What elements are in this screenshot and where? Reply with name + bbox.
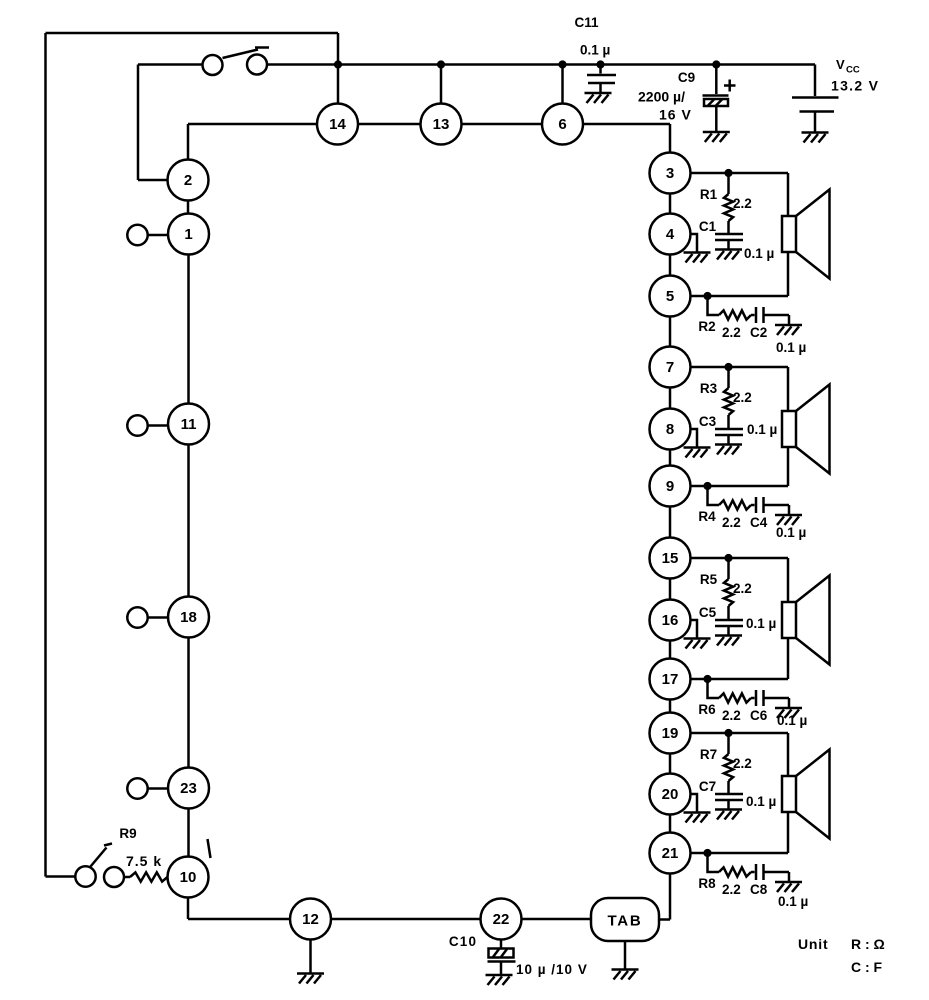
- capacitor C2: [756, 307, 789, 324]
- wire right column: [669, 194, 672, 214]
- switch S1 (power switch): [203, 48, 270, 76]
- wire pin10-pin12: [188, 918, 290, 921]
- wire pin13 feed: [440, 65, 443, 104]
- pin 9: [650, 466, 691, 507]
- wire right column: [669, 754, 672, 774]
- wire pin11-pin18: [187, 445, 190, 597]
- svg-text:19: 19: [662, 725, 679, 742]
- svg-text:R7: R7: [700, 747, 717, 762]
- wire pin2 left: [138, 179, 168, 182]
- svg-text:15: 15: [662, 550, 679, 567]
- wire ch2 mid pin ground stub: [691, 429, 698, 447]
- wire ch1 speaker bottom feed: [787, 252, 790, 296]
- wire terminal-pin11: [148, 424, 168, 427]
- resistor R8: [719, 867, 751, 876]
- svg-text:C10: C10: [449, 934, 477, 949]
- wire R4 to C4: [751, 504, 755, 507]
- resistor R9: [130, 872, 168, 881]
- resistor R5: [724, 579, 733, 606]
- pin 3: [650, 153, 691, 194]
- ground ch4 mid pin: [684, 813, 711, 823]
- pin 8: [650, 409, 691, 450]
- battery Vcc: [792, 98, 839, 132]
- wire right column: [669, 317, 672, 347]
- svg-text:R5: R5: [700, 572, 718, 587]
- pin 10: [168, 857, 209, 898]
- svg-text:R9: R9: [119, 826, 136, 841]
- wire R6 to C6: [751, 697, 755, 700]
- wire ch3 into R5: [727, 558, 730, 579]
- resistor R3: [724, 388, 733, 415]
- wire ch2 out- to speaker: [691, 485, 789, 488]
- svg-text:2.2: 2.2: [722, 708, 741, 723]
- svg-text:R2: R2: [698, 319, 715, 334]
- wire ch3 speaker top feed: [787, 558, 790, 602]
- pin 5: [650, 276, 691, 317]
- svg-text:1: 1: [184, 226, 192, 243]
- pin 21: [650, 833, 691, 874]
- wire pin23-pin10: [187, 809, 190, 857]
- wire ch2 R4 drop: [708, 486, 720, 505]
- wire ch1 speaker top feed: [787, 173, 790, 216]
- junction ch4 R7 tap: [724, 729, 732, 737]
- speaker SP3: [782, 576, 830, 665]
- junction bus / C11: [596, 60, 604, 68]
- svg-text:2.2: 2.2: [733, 756, 752, 771]
- svg-text:R4: R4: [698, 509, 716, 524]
- wire right column: [669, 641, 672, 659]
- resistor R7: [724, 754, 733, 781]
- pin 18: [168, 597, 209, 638]
- wire ch1 R2 drop: [708, 296, 720, 315]
- ground under C11: [585, 93, 612, 103]
- speaker SP1: [782, 190, 830, 279]
- wire TAB ground stub: [624, 942, 627, 969]
- wire down to pin3: [669, 124, 672, 153]
- svg-text:R8: R8: [698, 876, 716, 891]
- svg-text:0.1 µ: 0.1 µ: [776, 340, 806, 355]
- ground after C6: [775, 708, 802, 718]
- svg-text:C5: C5: [699, 605, 717, 620]
- pin 7: [650, 347, 691, 388]
- ground after C2: [775, 325, 802, 335]
- wire R3 to C3: [727, 415, 730, 429]
- svg-text:20: 20: [662, 786, 679, 803]
- speaker SP2: [782, 385, 830, 474]
- resistor R4: [719, 500, 751, 509]
- svg-text:16 V: 16 V: [659, 107, 692, 123]
- terminal input pin1: [127, 225, 147, 245]
- switch S2 (standby/mute): [91, 844, 125, 888]
- svg-text:2.2: 2.2: [733, 196, 752, 211]
- svg-text:R3: R3: [700, 381, 718, 396]
- pin 4: [650, 214, 691, 255]
- svg-text:7.5 k: 7.5 k: [126, 853, 162, 869]
- svg-text:2.2: 2.2: [722, 515, 741, 530]
- pin 11: [168, 404, 209, 445]
- svg-text:2.2: 2.2: [733, 390, 752, 405]
- svg-text:13: 13: [433, 116, 450, 133]
- wire R5 to C5: [727, 606, 730, 620]
- pin 13: [421, 104, 462, 145]
- speaker SP4: [782, 750, 830, 839]
- svg-text:2.2: 2.2: [733, 581, 752, 596]
- junction ch1 R2 tap: [703, 292, 711, 300]
- svg-text:TAB: TAB: [607, 913, 642, 930]
- svg-text:C8: C8: [750, 882, 768, 897]
- wire right column: [669, 579, 672, 600]
- junction switch bus / pin14: [334, 60, 342, 68]
- pin 6: [542, 104, 583, 145]
- wire right column: [669, 255, 672, 276]
- wire ch1 out+ to speaker: [691, 172, 789, 175]
- wire TAB to pin21 branch: [659, 918, 670, 921]
- wire pin1-pin11: [187, 255, 190, 404]
- svg-text:R1: R1: [700, 187, 718, 202]
- wire ch4 out- to speaker: [691, 852, 789, 855]
- pin 23: [168, 768, 209, 809]
- svg-text:21: 21: [662, 845, 679, 862]
- ground under C7: [715, 810, 742, 820]
- wire switch to R9: [124, 876, 130, 879]
- wire ch2 speaker top feed: [787, 367, 790, 411]
- terminal switch S2 left: [75, 866, 95, 886]
- pin TAB: [591, 898, 659, 941]
- svg-text:0.1 µ: 0.1 µ: [778, 894, 808, 909]
- svg-text:2200 µ/: 2200 µ/: [638, 89, 685, 105]
- svg-text:C3: C3: [699, 414, 717, 429]
- terminal input pin23: [127, 778, 147, 798]
- wire pin6 feed: [561, 65, 564, 104]
- svg-text:C11: C11: [574, 15, 599, 30]
- wire ch3 speaker bottom feed: [787, 638, 790, 679]
- svg-text:18: 18: [180, 609, 197, 626]
- wire Vcc drop: [814, 65, 817, 97]
- wire ch3 mid pin ground stub: [691, 620, 698, 638]
- pin 15: [650, 538, 691, 579]
- svg-text:0.1 µ: 0.1 µ: [747, 422, 777, 437]
- wire R1 to C1: [727, 221, 730, 234]
- pin 19: [650, 713, 691, 754]
- junction ch1 R1 tap: [724, 169, 732, 177]
- wire ch3 R6 drop: [708, 679, 720, 698]
- wire ch3 out- to speaker: [691, 678, 789, 681]
- wire ch2 out+ to speaker: [691, 366, 789, 369]
- svg-text:2.2: 2.2: [722, 325, 741, 340]
- wire R8 to C8: [751, 871, 755, 874]
- wire pin14 feed vertical: [337, 33, 340, 104]
- ground after C4: [775, 515, 802, 525]
- ground under C10: [486, 975, 513, 985]
- svg-text:2.2: 2.2: [722, 882, 741, 897]
- junction bus / pin13: [437, 60, 445, 68]
- capacitor C11: [587, 65, 616, 93]
- junction ch3 R6 tap: [703, 675, 711, 683]
- svg-text:C : F: C : F: [851, 959, 883, 975]
- wire top supply bus: [267, 63, 815, 66]
- ground ch3 mid pin: [684, 639, 711, 649]
- wire ch4 R8 drop: [708, 853, 720, 872]
- wire ch1 into R1: [727, 173, 730, 194]
- svg-text:22: 22: [493, 911, 510, 928]
- svg-text:4: 4: [666, 226, 675, 243]
- svg-text:14: 14: [329, 116, 346, 133]
- svg-text:12: 12: [302, 911, 319, 928]
- pin 17: [650, 659, 691, 700]
- ground under C1: [715, 250, 742, 260]
- svg-text:23: 23: [180, 780, 197, 797]
- wire terminal-pin18: [148, 616, 168, 619]
- wire outer to terminal: [46, 875, 76, 878]
- capacitor C6: [756, 690, 789, 707]
- svg-text:17: 17: [662, 671, 679, 688]
- wire ch1 out- to speaker: [691, 295, 789, 298]
- svg-text:7: 7: [666, 359, 674, 376]
- pin 1: [168, 214, 209, 255]
- pin 16: [650, 600, 691, 641]
- svg-text:9: 9: [666, 478, 674, 495]
- svg-text:C4: C4: [750, 515, 768, 530]
- junction ch2 R3 tap: [724, 363, 732, 371]
- svg-text:C6: C6: [750, 708, 768, 723]
- wire pin14-pin13: [358, 123, 421, 126]
- wire pin22-TAB: [522, 918, 591, 921]
- wire ch4 speaker top feed: [787, 733, 790, 776]
- wire outer left: [44, 33, 47, 877]
- junction ch4 R8 tap: [703, 849, 711, 857]
- ground under TAB: [612, 970, 639, 980]
- svg-text:C9: C9: [678, 70, 695, 85]
- wire pin18-pin23: [187, 638, 190, 768]
- wire ch1 mid pin ground stub: [691, 234, 698, 252]
- ground ch1 mid pin: [684, 253, 711, 263]
- wire ch4 into R7: [727, 733, 730, 754]
- svg-text:CC: CC: [846, 65, 860, 76]
- svg-text:0.1 µ: 0.1 µ: [746, 794, 776, 809]
- svg-text:C1: C1: [699, 219, 717, 234]
- svg-text:C2: C2: [750, 325, 767, 340]
- wire ch2 speaker bottom feed: [787, 447, 790, 486]
- svg-text:0.1 µ: 0.1 µ: [580, 43, 610, 58]
- capacitor C10 (electrolytic): [488, 940, 516, 975]
- junction bus / C9: [712, 60, 720, 68]
- wire pin6 to right column: [583, 123, 670, 126]
- svg-text:0.1 µ: 0.1 µ: [777, 713, 807, 728]
- wire right column: [669, 388, 672, 409]
- svg-text:5: 5: [666, 288, 674, 305]
- wire right column: [669, 507, 672, 538]
- pin 12: [290, 899, 331, 940]
- wire R2 to C2: [751, 314, 755, 317]
- junction ch2 R4 tap: [703, 482, 711, 490]
- wire pin2 branch vertical: [137, 65, 140, 181]
- svg-text:0.1 µ: 0.1 µ: [776, 525, 806, 540]
- ground under Vcc: [802, 133, 829, 143]
- ground under C9: [703, 132, 730, 142]
- wire R7 to C7: [727, 781, 730, 794]
- capacitor C4: [756, 497, 789, 514]
- wire ch2 into R3: [727, 367, 730, 388]
- pin 22: [481, 899, 522, 940]
- svg-text:8: 8: [666, 421, 674, 438]
- resistor R2: [719, 310, 751, 319]
- svg-text:V: V: [836, 57, 845, 72]
- svg-text:6: 6: [558, 116, 566, 133]
- wire pin10 down: [187, 898, 190, 920]
- wire right column: [669, 450, 672, 466]
- svg-text:R6: R6: [698, 702, 716, 717]
- wire to pin14: [188, 123, 317, 126]
- capacitor C1: [715, 234, 743, 249]
- terminal input pin11: [127, 415, 147, 435]
- ground under C5: [715, 636, 742, 646]
- wire right column: [669, 815, 672, 833]
- wire outer top: [46, 32, 339, 35]
- wire ch4 mid pin ground stub: [691, 794, 698, 812]
- svg-text:13.2 V: 13.2 V: [831, 78, 879, 94]
- wire terminal-pin1: [148, 234, 168, 237]
- svg-text:11: 11: [181, 416, 197, 433]
- capacitor C3: [715, 429, 743, 444]
- svg-text:R : Ω: R : Ω: [851, 936, 885, 952]
- wire right column: [669, 700, 672, 713]
- wire ch3 out+ to speaker: [691, 557, 789, 560]
- capacitor C7: [715, 794, 743, 809]
- svg-text:10 µ /10 V: 10 µ /10 V: [516, 962, 588, 977]
- pin 14: [317, 104, 358, 145]
- wire to switch S1: [138, 63, 203, 66]
- capacitor C8: [756, 864, 789, 881]
- wire pin2-pin1: [187, 201, 190, 214]
- ground under pin12: [297, 974, 324, 984]
- capacitor C5: [715, 620, 743, 635]
- terminal input pin18: [127, 607, 147, 627]
- pin 2: [168, 160, 209, 201]
- svg-text:0.1 µ: 0.1 µ: [746, 616, 776, 631]
- ground after C8: [775, 882, 802, 892]
- resistor R6: [719, 693, 751, 702]
- wire pin12-pin22: [331, 918, 480, 921]
- artifact stray mark near pin 10: [208, 839, 211, 858]
- wire pin2 to top row: [187, 124, 190, 160]
- resistor R1: [724, 194, 733, 221]
- pin 20: [650, 774, 691, 815]
- junction ch3 R5 tap: [724, 554, 732, 562]
- junction bus / pin6: [558, 60, 566, 68]
- svg-text:Unit: Unit: [798, 936, 828, 952]
- svg-text:C7: C7: [699, 779, 716, 794]
- capacitor C9 (electrolytic): [703, 65, 736, 132]
- wire terminal-pin23: [148, 787, 168, 790]
- ground under C3: [715, 445, 742, 455]
- wire up to pin21: [669, 874, 672, 920]
- svg-text:3: 3: [666, 165, 674, 182]
- wire ch4 speaker bottom feed: [787, 812, 790, 853]
- svg-text:2: 2: [184, 172, 192, 189]
- svg-text:16: 16: [662, 612, 679, 629]
- wire ch4 out+ to speaker: [691, 732, 789, 735]
- ground ch2 mid pin: [684, 448, 711, 458]
- svg-text:0.1 µ: 0.1 µ: [744, 246, 774, 261]
- wire pin13-pin6: [462, 123, 543, 126]
- wire pin12 ground stub: [309, 940, 312, 973]
- svg-text:10: 10: [180, 869, 197, 886]
